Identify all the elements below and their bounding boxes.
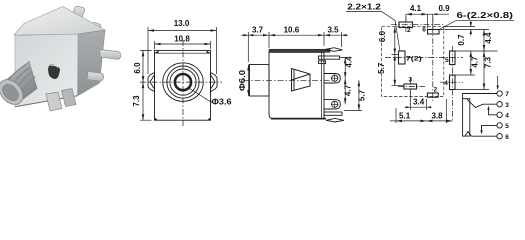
- svg-text:6: 6: [505, 134, 509, 141]
- svg-text:7.3: 7.3: [132, 95, 141, 107]
- svg-text:7(2): 7(2): [406, 56, 422, 63]
- wire terminal 4 link: [489, 108, 497, 115]
- svg-text:6.0: 6.0: [133, 62, 142, 74]
- svg-text:3: 3: [505, 102, 509, 109]
- terminal 3: [497, 102, 502, 107]
- pad 4 right: [450, 75, 456, 90]
- dim phi3.6 leader: [190, 89, 213, 103]
- front ring r13: [170, 69, 196, 95]
- terminal 5: [497, 123, 502, 128]
- svg-text:10.6: 10.6: [284, 26, 300, 35]
- dim 2.2x1.2 leader: [346, 12, 400, 51]
- svg-text:4: 4: [505, 113, 509, 120]
- front left mount tab: [148, 73, 155, 92]
- svg-text:4: 4: [444, 80, 448, 87]
- 3D bottom feet: [46, 92, 62, 111]
- pad 3 bottom: [404, 84, 417, 89]
- front centerline vertical: [182, 40, 184, 126]
- plug body rect: [463, 99, 470, 136]
- fp right ext lines: [439, 27, 498, 90]
- svg-text:3: 3: [408, 76, 412, 83]
- svg-text:2: 2: [433, 87, 437, 94]
- svg-text:3.5: 3.5: [327, 26, 339, 35]
- fp centerline pads45 column: [452, 46, 454, 121]
- svg-text:4.4: 4.4: [484, 32, 493, 44]
- wire to terminal 7: [463, 94, 497, 99]
- terminal 4: [497, 112, 502, 117]
- 3D top metal tab A: [72, 6, 85, 20]
- fp centerline middle row: [385, 57, 463, 59]
- 3D front hole: [48, 65, 59, 79]
- front right mount tab: [211, 73, 218, 92]
- side right dim lines: [340, 58, 362, 111]
- terminal 6: [497, 134, 502, 139]
- svg-text:0.7: 0.7: [457, 34, 466, 46]
- front centerline horizontal: [140, 81, 222, 83]
- svg-text:4.7: 4.7: [471, 56, 480, 68]
- fp centerline pad4 row: [440, 81, 463, 83]
- svg-text:5: 5: [445, 57, 449, 64]
- front body outline: [155, 50, 211, 120]
- front hole ring bold: [175, 74, 191, 90]
- side body outline: [269, 52, 324, 119]
- svg-text:2.2×1.2: 2.2×1.2: [347, 3, 381, 12]
- front ring r16: [167, 66, 199, 98]
- dim 13.0 line: [148, 27, 217, 74]
- fp left dim line: [392, 27, 405, 86]
- dim 6-(2.2x0.8) leader: [439, 21, 514, 30]
- 3D body front face: [15, 34, 78, 107]
- pad 5 right: [450, 51, 456, 65]
- side top plate end diamond: [325, 48, 343, 52]
- fp centerline pad2 column: [405, 17, 407, 33]
- side barrel: [250, 65, 270, 97]
- 3D barrel cylinder: [2, 62, 37, 104]
- svg-text:6.0: 6.0: [378, 30, 387, 42]
- svg-text:5: 5: [505, 123, 509, 130]
- svg-text:3.8: 3.8: [431, 112, 443, 121]
- side funnel: [292, 69, 311, 92]
- 3D body right face: [78, 30, 106, 96]
- svg-text:6-(2.2×0.8): 6-(2.2×0.8): [457, 11, 514, 20]
- side bottom right pin bar: [324, 112, 342, 115]
- svg-text:Φ3.6: Φ3.6: [212, 98, 233, 107]
- svg-text:5.1: 5.1: [399, 112, 411, 121]
- 3D right pin C: [100, 50, 121, 60]
- pad 6 top: [428, 30, 440, 35]
- front body top inner line: [155, 52, 211, 54]
- svg-text:2: 2: [407, 27, 411, 34]
- svg-text:0.9: 0.9: [438, 4, 450, 13]
- side upper right tab long: [319, 56, 340, 59]
- svg-text:6: 6: [422, 27, 426, 34]
- 3D barrel tip: [0, 75, 28, 109]
- svg-text:5.7: 5.7: [377, 62, 386, 74]
- svg-text:7.3: 7.3: [484, 56, 493, 68]
- 3D top metal tab B: [90, 23, 101, 36]
- 3D barrel knurl rings: [7, 65, 35, 100]
- svg-text:4.1: 4.1: [410, 4, 422, 13]
- 3D right pin D: [87, 72, 104, 82]
- wire terminal 5 link: [482, 125, 497, 132]
- 3D front face bottom shadow edge: [15, 96, 78, 107]
- dim left vertical line: [140, 50, 152, 120]
- svg-text:7: 7: [505, 91, 509, 98]
- fp dim 3.4 line: [405, 91, 432, 111]
- side top dim line: [241, 32, 348, 62]
- svg-text:10.8: 10.8: [174, 35, 190, 44]
- fp top dim line: [406, 14, 449, 28]
- pad 2 bottom: [427, 93, 438, 97]
- side top thick plate: [269, 49, 330, 52]
- fp leader line down to schematic terminal 7: [497, 76, 499, 89]
- side centerline: [243, 79, 332, 81]
- fp bottom dim line: [390, 99, 453, 123]
- 3D body top face: [14, 7, 105, 36]
- side bottom dart pin: [326, 118, 344, 122]
- side pin 2 tab with hole: [324, 100, 340, 109]
- svg-text:3.7: 3.7: [252, 26, 264, 35]
- wire terminal 6 with contact peak: [465, 132, 497, 137]
- svg-text:13.0: 13.0: [174, 19, 190, 28]
- terminal 7: [497, 91, 502, 96]
- fp centerline top pads row: [391, 24, 445, 26]
- pad 2 top: [399, 22, 413, 28]
- dim phi6.0 line: [248, 65, 250, 97]
- svg-text:3.4: 3.4: [413, 97, 425, 106]
- pad 7 left: [399, 51, 406, 64]
- wire terminal 3 with contact arm: [467, 99, 497, 108]
- fp centerline pad3 row: [398, 86, 425, 88]
- side upper right tab short: [319, 61, 326, 64]
- front barrel outer ellipse: [163, 63, 204, 102]
- fp dashed outline: [382, 27, 444, 97]
- dim 10.8 line: [155, 41, 211, 49]
- front chamfer marks: [155, 50, 211, 53]
- fp centerline pad6 pad2b column: [432, 17, 434, 102]
- fp centerline pad3 column: [409, 78, 411, 101]
- side pin 1 tab with hole: [324, 74, 340, 84]
